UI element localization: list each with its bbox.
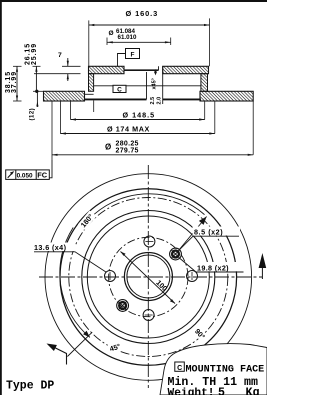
view direction arrow right side	[259, 253, 267, 279]
bolt hole right	[187, 271, 198, 282]
frame left border	[0, 0, 2, 395]
45 deg label	[107, 341, 124, 354]
feature control frame runout 0.050 FC	[6, 170, 50, 180]
svg-text:C: C	[117, 86, 122, 93]
band top extension line	[33, 90, 44, 92]
180 deg arc dimension	[60, 194, 205, 338]
hat wall left (hatched)	[89, 74, 94, 92]
label 19.8 (x2) with leader to pin hole	[180, 259, 244, 273]
svg-text:FC: FC	[37, 171, 48, 180]
datum C box on mounting face	[113, 85, 126, 93]
svg-text:Ø 148.5: Ø 148.5	[123, 111, 156, 120]
svg-text:2.5: 2.5	[150, 97, 156, 105]
datum C box (mounting face note)	[175, 362, 185, 371]
chamfer edge line	[146, 72, 148, 99]
dimension Ø160.3	[89, 18, 210, 66]
bore recess right edge	[158, 66, 160, 70]
hat outer circle	[87, 216, 209, 338]
svg-text:61.010: 61.010	[118, 34, 137, 41]
wall foot line	[85, 93, 94, 95]
180 deg label	[78, 210, 96, 230]
bolt hole bottom	[143, 310, 154, 321]
svg-text:7: 7	[58, 52, 62, 59]
svg-text:13.6 (x4): 13.6 (x4)	[34, 243, 67, 252]
svg-text:279.75: 279.75	[116, 148, 139, 155]
band inner circle	[82, 211, 215, 344]
flange top extension line for 7-dim	[62, 65, 81, 67]
svg-text:C: C	[177, 365, 182, 372]
dimension circle r103.3	[45, 174, 252, 381]
svg-text:Ø: Ø	[105, 142, 111, 151]
svg-text:0.050: 0.050	[17, 172, 33, 179]
bore recess floor line	[124, 69, 159, 71]
hat flange plate left segment (hatched)	[89, 66, 125, 73]
flange underside extension line	[34, 73, 81, 75]
outer circle	[60, 189, 237, 366]
dimension Ø280.25/279.75	[52, 100, 253, 160]
svg-text:19.8 (x2): 19.8 (x2)	[197, 263, 229, 272]
svg-text:8.5 (x2): 8.5 (x2)	[194, 227, 223, 236]
dimension Ø174 MAX	[60, 101, 214, 135]
hub inner step line	[94, 85, 201, 87]
extension radial lower-left	[67, 332, 92, 356]
mounting face thick line right	[163, 98, 201, 100]
svg-text:(12): (12)	[29, 108, 35, 121]
90 deg label	[192, 326, 209, 343]
svg-text:5: 5	[218, 386, 225, 395]
label 8.5 (x2) with leader to pin hole	[180, 227, 241, 250]
svg-text:25.99: 25.99	[31, 43, 38, 65]
bolt hole top	[144, 236, 155, 247]
svg-text:Type DP: Type DP	[6, 380, 54, 393]
dimension 38.15/37.99	[13, 66, 22, 101]
extension radial to upper-right pin hole with arrow	[179, 217, 207, 251]
chamfer mini arrows	[154, 69, 157, 75]
svg-text:280.25: 280.25	[116, 140, 139, 147]
pin hole lower left (counterbored)	[117, 300, 129, 312]
bolt hole left	[105, 271, 116, 282]
bore recess left edge	[123, 66, 125, 70]
svg-text:MOUNTING FACE: MOUNTING FACE	[186, 364, 265, 375]
dimension 7 (flange thickness)	[67, 58, 69, 81]
braking band left (hatched)	[44, 91, 85, 101]
rotation direction arrow	[47, 344, 67, 365]
hat flange plate right segment (hatched)	[163, 66, 209, 73]
frame top border	[0, 0, 267, 2]
svg-text:Ø 160.3: Ø 160.3	[126, 9, 159, 18]
svg-text:Kg: Kg	[246, 386, 260, 395]
svg-text:2.0: 2.0	[156, 97, 162, 105]
band inner edge left	[84, 91, 86, 99]
svg-text:37.99: 37.99	[11, 71, 18, 93]
svg-text:Ø 174 MAX: Ø 174 MAX	[107, 125, 150, 134]
pin hole upper right (counterbored)	[170, 248, 182, 260]
mounting face thick line left	[85, 98, 147, 100]
braking band right (hatched)	[200, 91, 253, 101]
mounting face cloud	[160, 344, 267, 395]
dimension 26.15/25.99	[33, 66, 41, 93]
svg-text:F: F	[131, 52, 135, 59]
braking surface mid dash circle	[69, 198, 228, 357]
bore right edge line	[162, 66, 164, 104]
dimension Ø148.5	[71, 101, 205, 121]
vertical centerline	[147, 165, 149, 388]
label 13.6 (x4) with leader to left bolt hole	[33, 243, 107, 273]
leader hook from 280 extension to FCF box	[49, 160, 52, 178]
PCD Ø100 diagonal dimension	[121, 252, 176, 304]
svg-text:x45°: x45°	[152, 78, 158, 89]
bore inner circle	[127, 255, 170, 298]
bore outer circle	[124, 253, 172, 301]
svg-text:Weight!: Weight!	[168, 387, 215, 395]
hat wall right (hatched)	[201, 74, 208, 92]
horizontal centerline	[39, 276, 262, 278]
svg-text:Ø: Ø	[109, 30, 114, 37]
dimension (12) band thickness	[36, 91, 38, 107]
bolt PCD dash circle	[109, 237, 188, 316]
dimension Ø61.084/61.010	[107, 38, 171, 46]
datum F box with leader	[118, 49, 140, 67]
